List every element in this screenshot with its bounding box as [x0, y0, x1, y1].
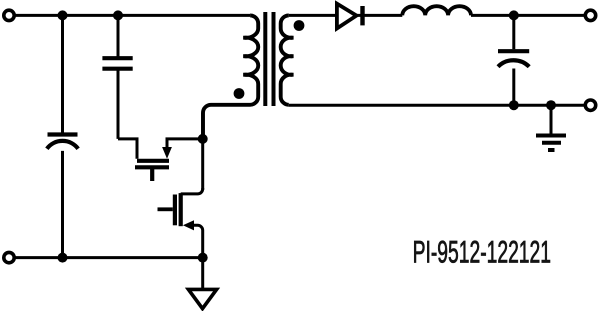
svg-text:PI-9512-122121: PI-9512-122121	[413, 233, 551, 269]
